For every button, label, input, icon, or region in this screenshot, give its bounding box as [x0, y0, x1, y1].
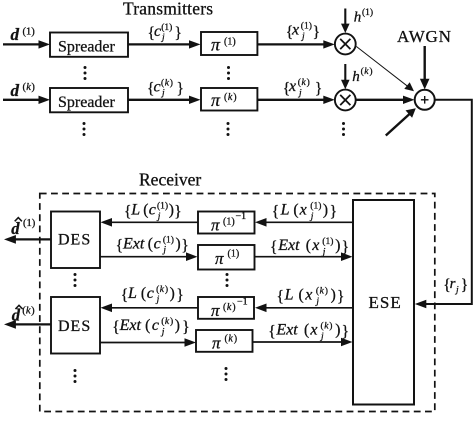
svg-text:(1): (1) — [157, 201, 168, 212]
label {c_j(k)} — [147, 78, 184, 99]
svg-text:): ) — [335, 322, 340, 339]
svg-text:c: c — [149, 202, 156, 219]
label {Ext(x_j(1))} — [270, 236, 349, 257]
svg-text:): ) — [335, 237, 340, 254]
svg-text:(: ( — [143, 202, 148, 219]
svg-text:DES: DES — [58, 231, 91, 248]
svg-text:): ) — [170, 78, 173, 89]
dots between DES blocks — [74, 273, 77, 287]
svg-text:DES: DES — [58, 318, 91, 335]
svg-text:c: c — [154, 235, 161, 252]
dots between pi(1) and pi(k)inv — [226, 273, 229, 287]
wire multiplier1 to adder thin diagonal — [356, 47, 414, 92]
svg-text:(: ( — [148, 235, 153, 252]
svg-text:Spreader: Spreader — [58, 94, 116, 111]
svg-text:−1: −1 — [236, 211, 247, 222]
svg-text:): ) — [170, 316, 173, 327]
svg-text:Ext: Ext — [277, 237, 300, 254]
label {L(c_j(1))} — [124, 201, 182, 222]
svg-text:ESE: ESE — [369, 293, 402, 312]
svg-text:L: L — [127, 285, 137, 302]
label {L(c_j(k))} — [121, 284, 184, 305]
svg-text:(1): (1) — [301, 21, 312, 32]
svg-text:π: π — [212, 334, 221, 353]
block pi(k) — [201, 88, 257, 111]
svg-text:(: ( — [293, 202, 298, 219]
svg-text:L: L — [284, 287, 294, 304]
svg-text:Spreader: Spreader — [58, 39, 116, 56]
svg-text:x: x — [288, 78, 296, 95]
svg-text:): ) — [31, 306, 35, 317]
receiver dashed box — [40, 194, 435, 412]
svg-text:Ext: Ext — [122, 235, 145, 252]
svg-text:): ) — [176, 235, 181, 252]
label {x_j(k)} — [283, 77, 323, 98]
svg-text:}: } — [313, 24, 320, 41]
dots between spreaders — [84, 66, 87, 80]
label h(k) — [352, 66, 372, 85]
svg-text:{: { — [270, 239, 277, 256]
svg-text:−1: −1 — [237, 297, 248, 308]
svg-text:}: } — [330, 204, 337, 221]
multiplier X2 — [335, 90, 356, 111]
wire DES2 to pi(k) — [100, 338, 196, 347]
svg-text:(: ( — [299, 287, 304, 304]
svg-text:r: r — [450, 276, 456, 292]
svg-text:}: } — [315, 81, 322, 98]
block DES 2 — [51, 297, 100, 354]
svg-text:(: ( — [145, 317, 150, 334]
svg-text:(: ( — [321, 321, 324, 332]
svg-text:{: { — [268, 324, 275, 341]
svg-text:}: } — [175, 25, 182, 42]
block Spreader 2 — [50, 88, 128, 112]
svg-text:(1): (1) — [23, 26, 36, 37]
svg-text:}: } — [174, 204, 181, 221]
wire multiplier2 to adder — [356, 96, 415, 104]
wire h(k) arrow — [341, 64, 350, 89]
label {Ext(c_j(1))} — [116, 234, 189, 255]
svg-text:{: { — [277, 289, 284, 306]
dots below DES2 — [74, 369, 77, 383]
svg-text:AWGN: AWGN — [397, 27, 452, 46]
svg-text:(: ( — [306, 237, 311, 254]
svg-text:π: π — [211, 90, 221, 110]
wire pi(k)inv to DES2 — [101, 304, 199, 313]
label {x_j(1)} — [286, 21, 320, 42]
svg-text:k: k — [227, 302, 232, 313]
svg-text:(1): (1) — [161, 22, 172, 33]
dots below pi(k) — [227, 122, 230, 136]
block pi(1) receiver — [198, 245, 255, 270]
label {c_j(1)} — [148, 22, 182, 43]
wire Spreader2 to pi(k) — [128, 96, 201, 104]
svg-text:Ext: Ext — [275, 322, 298, 339]
svg-text:π: π — [211, 216, 220, 235]
svg-text:k: k — [228, 92, 233, 103]
svg-text:π: π — [211, 35, 221, 55]
svg-text:): ) — [175, 317, 180, 334]
svg-text:c: c — [147, 285, 154, 302]
svg-text:x: x — [311, 237, 319, 254]
svg-text:}: } — [176, 287, 183, 304]
wire pi(1) to multiplier 1 — [257, 40, 334, 48]
wire d(1) input arrow — [3, 40, 50, 48]
svg-text:): ) — [307, 77, 310, 88]
svg-text:c: c — [152, 317, 159, 334]
svg-text:(1): (1) — [362, 7, 373, 18]
block pi(k) inverse — [198, 297, 254, 320]
svg-text:(1): (1) — [322, 236, 333, 247]
dots between pi blocks — [227, 66, 230, 80]
wire ESE to pi(k)inv — [255, 304, 353, 313]
svg-text:(: ( — [156, 284, 159, 295]
svg-text:}: } — [182, 319, 189, 336]
block DES 1 — [51, 212, 100, 269]
svg-text:L: L — [280, 202, 290, 219]
label h(1) — [354, 7, 373, 25]
svg-text:(: ( — [316, 286, 319, 297]
dots below pi(k) receiver — [225, 367, 228, 381]
svg-text:h: h — [352, 69, 360, 85]
block Spreader 1 — [50, 33, 128, 57]
label d-hat(k) — [12, 305, 35, 324]
svg-text:(1): (1) — [223, 217, 235, 228]
label {L(x_j(k))} — [277, 286, 345, 307]
wire DES1 to pi(1) — [100, 252, 198, 261]
dots below multiplier 2 — [342, 122, 345, 136]
svg-text:}: } — [342, 324, 349, 341]
svg-text:): ) — [325, 286, 328, 297]
wire pi(1) to ESE — [255, 252, 353, 261]
wire pi(k) to ESE — [253, 338, 353, 347]
svg-text:x: x — [304, 287, 312, 304]
svg-text:Transmitters: Transmitters — [123, 0, 213, 19]
svg-text:}: } — [177, 81, 184, 98]
svg-text:(1): (1) — [310, 201, 321, 212]
label {L(x_j(1))} — [272, 201, 337, 222]
wire ESE to pi(1)inv — [255, 218, 353, 227]
svg-text:π: π — [215, 249, 224, 268]
block pi(k) receiver — [196, 330, 253, 353]
svg-text:): ) — [323, 202, 328, 219]
svg-text:(: ( — [361, 66, 364, 77]
svg-text:): ) — [331, 287, 336, 304]
svg-text:x: x — [291, 22, 299, 39]
wire other users diagonal arrow — [386, 108, 416, 135]
wire adder to ESE feed line — [415, 100, 472, 308]
svg-text:): ) — [31, 82, 35, 93]
svg-text:}: } — [181, 238, 188, 255]
wire h(1) arrow — [341, 9, 350, 34]
svg-text:}: } — [337, 289, 344, 306]
wire AWGN arrow — [420, 46, 430, 89]
svg-text:): ) — [233, 92, 236, 103]
svg-text:{: { — [272, 204, 279, 221]
svg-text:d: d — [11, 219, 20, 238]
svg-text:(1): (1) — [224, 37, 236, 48]
label d(1) — [11, 25, 36, 44]
label {Ext(x_j(k))} — [268, 321, 349, 342]
svg-text:): ) — [329, 321, 332, 332]
svg-text:c: c — [154, 23, 161, 40]
wire DES2 output — [4, 320, 51, 329]
svg-text:(: ( — [298, 77, 301, 88]
label d-hat(1) — [11, 218, 35, 238]
svg-text:Receiver: Receiver — [139, 170, 201, 190]
svg-text:L: L — [130, 202, 140, 219]
svg-text:): ) — [369, 66, 372, 77]
svg-text:c: c — [154, 79, 161, 96]
svg-text:(1): (1) — [228, 249, 240, 260]
wire d(k) input arrow — [3, 96, 50, 104]
svg-text:Ext: Ext — [119, 317, 142, 334]
svg-text:(: ( — [161, 316, 164, 327]
adder + — [415, 90, 435, 110]
block pi(1) — [201, 32, 257, 55]
svg-text:{: { — [112, 319, 119, 336]
svg-text:): ) — [232, 302, 235, 313]
svg-text:(: ( — [304, 322, 309, 339]
svg-text:(1): (1) — [23, 218, 36, 229]
label d(k) — [11, 81, 36, 100]
wire pi(k) to multiplier 2 — [257, 96, 334, 104]
wire Spreader1 to pi(1) — [128, 40, 201, 48]
dots below spreader 2 — [83, 122, 86, 136]
svg-text:x: x — [299, 202, 307, 219]
svg-text:{: { — [116, 238, 123, 255]
multiplier X1 — [335, 34, 356, 55]
svg-text:k: k — [228, 334, 233, 345]
block ESE — [353, 200, 414, 405]
svg-text:}: } — [461, 277, 468, 294]
label {Ext(c_j(k))} — [112, 316, 190, 337]
svg-text:): ) — [170, 285, 175, 302]
svg-text:(: ( — [141, 285, 146, 302]
label {r_j} — [443, 276, 468, 296]
svg-text:): ) — [165, 284, 168, 295]
svg-text:): ) — [234, 334, 237, 345]
svg-text:d: d — [11, 81, 20, 100]
wire pi(1)inv to DES1 — [101, 218, 199, 227]
svg-text:): ) — [169, 202, 174, 219]
svg-text:d: d — [11, 25, 20, 44]
svg-text:π: π — [211, 301, 220, 320]
svg-text:x: x — [309, 322, 317, 339]
svg-text:h: h — [354, 9, 362, 25]
block pi(1) inverse — [198, 211, 255, 235]
wire DES1 output — [4, 235, 51, 244]
svg-text:(: ( — [161, 78, 164, 89]
svg-text:(1): (1) — [163, 234, 174, 245]
